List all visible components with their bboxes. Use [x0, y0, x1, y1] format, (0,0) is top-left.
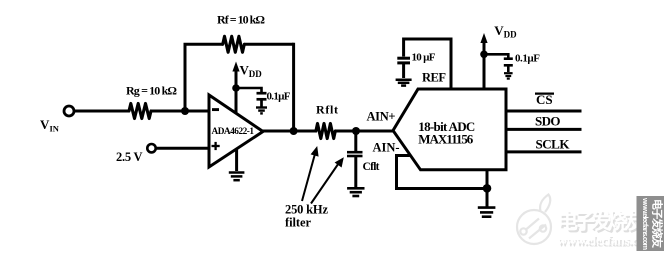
resistor Rg — [129, 104, 151, 119]
watermark badge — [637, 196, 664, 251]
svg-text:电子发烧友: 电子发烧友 — [651, 199, 664, 248]
power VDD arrow (op-amp) — [232, 62, 239, 114]
callout label 250 kHz filter — [285, 203, 328, 230]
wire Rflt to ADC AIN+ — [335, 130, 394, 133]
svg-text:2.5 V: 2.5 V — [116, 150, 143, 164]
ground (ADC) — [478, 189, 496, 217]
svg-text:REF: REF — [422, 70, 446, 84]
resistor Rf — [223, 36, 245, 52]
wire op-amp output — [262, 130, 316, 133]
svg-text:Rf = 10 kΩ: Rf = 10 kΩ — [217, 13, 265, 27]
svg-text:0.1µF: 0.1µF — [267, 91, 291, 103]
svg-text:Rflt: Rflt — [316, 103, 338, 117]
capacitor 10uF (REF) — [397, 58, 410, 78]
node: VDD bypass junction — [232, 84, 240, 92]
svg-text:Cflt: Cflt — [363, 161, 380, 173]
svg-text:0.1µF: 0.1µF — [515, 53, 540, 65]
output line SDO — [506, 128, 582, 131]
wire ADC VDD junction to bypass cap — [484, 54, 508, 57]
svg-text:AIN-: AIN- — [373, 141, 400, 155]
svg-text:10 µF: 10 µF — [412, 52, 436, 64]
svg-text:AIN+: AIN+ — [367, 110, 396, 124]
ground (op-amp negative supply) — [229, 150, 245, 181]
terminal 2.5V — [147, 144, 155, 152]
output line CS — [506, 110, 582, 113]
op-amp inverting pin mark — [212, 108, 219, 111]
label VDD (op-amp) — [240, 63, 263, 80]
output line SCLK — [506, 150, 582, 153]
node: filter cap junction — [352, 127, 360, 135]
svg-text:V: V — [40, 117, 50, 132]
node: feedback tap junction — [181, 107, 189, 115]
svg-text:filter: filter — [285, 216, 311, 230]
ground (ADC bypass cap) — [504, 73, 513, 78]
svg-text:ADA4622-1: ADA4622-1 — [212, 127, 255, 137]
svg-text:250 kHz: 250 kHz — [285, 203, 328, 217]
wire feedback left vertical — [184, 44, 187, 111]
wire feedback top left segment — [184, 43, 223, 46]
capacitor Cflt — [347, 131, 363, 187]
resistor Rflt — [316, 124, 335, 139]
power VDD arrow (ADC) — [480, 33, 487, 89]
ground (op-amp bypass cap) — [256, 108, 267, 114]
svg-text:Rg = 10 kΩ: Rg = 10 kΩ — [126, 84, 177, 98]
callout arrow to Cflt — [311, 157, 344, 203]
node: feedback junction at output — [290, 127, 298, 135]
terminal VIN — [64, 106, 74, 116]
svg-text:CS: CS — [536, 92, 553, 107]
ground (Cflt) — [347, 188, 364, 196]
wire feedback right vertical — [292, 43, 295, 131]
svg-text:SDO: SDO — [535, 114, 561, 129]
capacitor 0.1uF (op-amp bypass) — [257, 93, 267, 106]
capacitor 0.1uF (ADC bypass) — [504, 59, 513, 72]
node: ADC VDD bypass junction — [480, 51, 488, 59]
faint watermark text — [557, 210, 657, 250]
svg-text:电子发烧友: 电子发烧友 — [557, 210, 645, 234]
label VDD (ADC) — [494, 23, 517, 40]
wire VIN to Rg — [75, 110, 129, 113]
wire Rg to op-amp inverting input — [151, 110, 209, 113]
svg-text:SCLK: SCLK — [536, 136, 571, 151]
svg-text:MAX11156: MAX11156 — [418, 131, 474, 146]
op-amp non-inverting pin mark — [212, 142, 220, 150]
svg-text:DD: DD — [504, 29, 517, 39]
svg-text:DD: DD — [249, 69, 262, 79]
wire VDD junction to bypass cap — [236, 88, 262, 92]
wire 2.5V to op-amp non-inverting input — [156, 147, 209, 150]
callout arrow to Rflt — [302, 146, 319, 201]
svg-text:www.elecfans.com: www.elecfans.com — [641, 197, 650, 250]
ground (10uF cap) — [396, 80, 412, 86]
node: ADC ground junction — [483, 184, 492, 193]
wire feedback top right segment — [244, 43, 293, 46]
wire REF branch — [404, 39, 451, 88]
ADC U2 MAX11156 body — [393, 89, 506, 170]
faint watermark logo — [517, 195, 551, 245]
wire AIN- pin to ground rail — [397, 156, 488, 189]
label VIN — [40, 117, 60, 134]
label CS with overline — [535, 92, 554, 107]
svg-text:IN: IN — [50, 124, 60, 134]
op-amp U1 ADA4622-1 — [209, 95, 263, 167]
